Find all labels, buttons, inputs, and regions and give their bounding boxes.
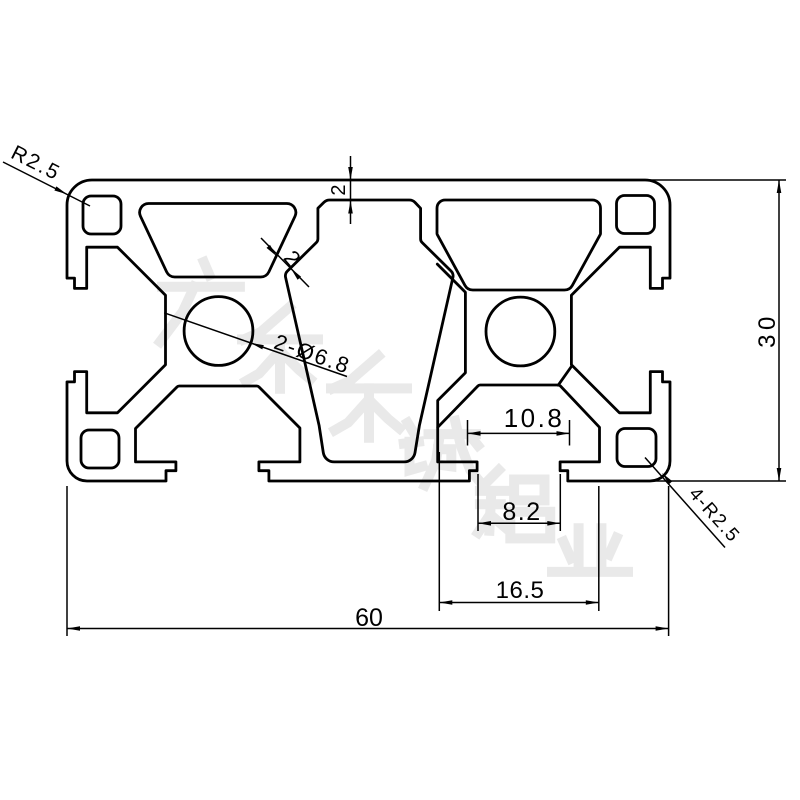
svg-text:8.2: 8.2 — [502, 498, 541, 526]
left top trapezoid cavity — [140, 203, 296, 277]
right top trapezoid cavity — [437, 200, 601, 290]
central cavity — [285, 200, 453, 462]
leader 4-R2.5 (corner radii callout) — [645, 458, 744, 548]
bottom-right corner square cavity — [617, 429, 656, 467]
leader 2-O6.8 (hole callout) — [164, 313, 354, 379]
bottom-left corner square cavity — [81, 430, 119, 468]
leader R2.5 (corner radius callout) — [3, 141, 90, 206]
dimension 60 (overall width, bottom) — [67, 486, 669, 636]
watermark character 业 — [552, 528, 628, 572]
top-right corner square cavity — [617, 196, 655, 234]
top-left corner square cavity — [83, 196, 121, 234]
svg-text:10.8: 10.8 — [504, 403, 565, 433]
dimension 8.2 (slot opening) — [478, 474, 560, 531]
svg-text:60: 60 — [355, 604, 383, 632]
dimension 2 (top wall thickness) — [328, 156, 353, 224]
watermark character 广 — [160, 262, 240, 342]
left hole O6.8 — [184, 297, 253, 366]
dimension 2 (web thickness, diagonal) — [261, 238, 309, 287]
dimension 16.5 (slot cavity width) — [439, 452, 599, 611]
dimension 30 (overall height, right) — [647, 180, 786, 481]
outer contour of 6030 extrusion (with 4 T-slot openings) — [67, 180, 670, 481]
right unit web wall around hole — [437, 264, 571, 427]
watermark character 铝 — [478, 470, 550, 538]
dimension 10.8 (slot width) — [468, 403, 570, 446]
svg-text:2: 2 — [328, 184, 350, 195]
svg-text:30: 30 — [754, 312, 781, 348]
svg-text:16.5: 16.5 — [496, 577, 545, 604]
watermark character 东 — [242, 307, 318, 389]
watermark character 东 — [331, 356, 407, 438]
watermark character 诚 — [404, 421, 480, 486]
right hole O6.8 — [486, 297, 555, 366]
